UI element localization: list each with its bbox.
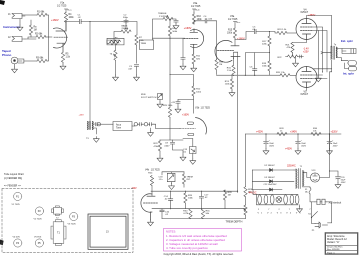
svg-text:(c) FENDER Mfg: (c) FENDER Mfg <box>4 177 23 180</box>
corner registration mark <box>0 0 5 5</box>
tube V1a envelope <box>54 22 68 52</box>
wire C1 to tone <box>81 21 122 23</box>
diode D2 <box>265 165 276 171</box>
svg-text:R15: R15 <box>228 30 233 32</box>
switch S1 <box>308 202 317 218</box>
ground opto <box>190 159 196 165</box>
svg-text:+320V: +320V <box>331 131 338 134</box>
return pair 2 <box>144 123 153 126</box>
pilot lamp <box>276 197 282 203</box>
wire plate to C4 <box>194 21 205 24</box>
coupling cap C1 .02 <box>78 15 82 24</box>
svg-text:+160V: +160V <box>182 114 189 117</box>
svg-text:R1 68k: R1 68k <box>37 12 45 14</box>
B+ center tap OT <box>321 52 331 54</box>
resistor R18 100k <box>262 61 271 75</box>
svg-text:V4b: V4b <box>145 169 150 171</box>
svg-text:500p: 500p <box>123 17 129 19</box>
resistor R23 470k <box>154 140 162 156</box>
layout tube V2 circle <box>34 207 44 220</box>
tube V5 envelope <box>296 67 317 88</box>
svg-text:+345V: +345V <box>290 131 297 134</box>
wire J2 to R2 <box>25 37 36 39</box>
wire xfmr to fuse <box>303 186 310 189</box>
svg-text:V1 V2 V3 V4 V5: V1 V2 V3 V4 V5 <box>258 212 303 214</box>
cap C9 .0047 <box>164 140 183 155</box>
osc cap C16 <box>160 209 170 219</box>
screen junction <box>313 75 328 79</box>
wire C4 to V3 grid <box>207 21 217 51</box>
svg-text:1/2 7025: 1/2 7025 <box>57 4 67 7</box>
resistor R25 100k <box>163 105 173 140</box>
B+ node c <box>233 22 241 25</box>
osc resistor R30 <box>183 209 192 219</box>
svg-text:+25V: +25V <box>79 114 85 116</box>
svg-text:+420V: +420V <box>256 131 263 134</box>
diode D3 <box>265 177 276 183</box>
grid resistor R20 1.5k on rail <box>276 72 296 77</box>
bias diode wire lower <box>252 170 294 181</box>
svg-text:450V: 450V <box>269 145 274 147</box>
treble pot label <box>158 13 169 18</box>
ground R23 <box>157 156 163 162</box>
reverb driver transformer T3 <box>86 121 94 140</box>
heater row wires <box>253 190 298 205</box>
input jack J2 <box>8 36 25 42</box>
svg-text:V2 7025: V2 7025 <box>34 218 43 220</box>
reverb tank box <box>113 122 132 131</box>
svg-text:Phono: Phono <box>2 53 11 57</box>
PI output rail <box>217 74 280 76</box>
wire interlock to cord <box>327 202 332 223</box>
label Taped Phono <box>2 49 11 57</box>
wire grid <box>46 36 53 38</box>
layout tube V4 circle <box>13 236 22 247</box>
svg-text:450V: 450V <box>333 145 338 147</box>
cathode resistor R11 820 <box>192 54 201 66</box>
wire C5 to V4 grid <box>256 32 277 34</box>
heater socket loops <box>258 195 299 204</box>
svg-text:.0047: .0047 <box>164 145 170 147</box>
osc bottom wire <box>162 218 246 220</box>
tube V3b label <box>195 107 210 110</box>
svg-text:C21 50uF/50V: C21 50uF/50V <box>264 184 278 186</box>
osc lower wire <box>152 208 246 210</box>
svg-text:Accu: Accu <box>116 123 122 126</box>
svg-text:1M: 1M <box>34 29 37 31</box>
ground NFB <box>315 76 321 82</box>
filter cap C19a <box>263 134 275 154</box>
wire phono to R3 <box>24 60 37 62</box>
svg-text:450V: 450V <box>301 145 306 147</box>
svg-text:R3 68k: R3 68k <box>36 58 44 60</box>
svg-text:100k: 100k <box>227 32 233 34</box>
mixer bus wire <box>170 38 194 107</box>
ground vol pot <box>113 75 119 81</box>
ground reverb send <box>93 137 99 143</box>
rail resistor R33 1k <box>277 128 287 136</box>
PI loop wire <box>245 53 269 76</box>
layout tube V3 circle <box>68 212 78 225</box>
svg-text:+25V: +25V <box>303 51 309 54</box>
V5 cathode stem <box>306 88 308 91</box>
volume box pot <box>107 38 124 45</box>
footswitch label <box>141 94 157 99</box>
opto coupler box <box>183 147 196 154</box>
wire send to tank <box>101 123 114 125</box>
cathode resistor R5 <box>61 52 70 62</box>
pot Tb vertical <box>110 45 118 75</box>
svg-text:V1 7025: V1 7025 <box>12 204 21 206</box>
layout tube V1 circle <box>12 192 22 206</box>
wire tank out <box>132 125 135 127</box>
B+ node b <box>192 9 200 12</box>
svg-text:250k A: 250k A <box>122 27 129 30</box>
svg-text:D2 1N4007: D2 1N4007 <box>265 165 276 167</box>
wire J1 to R1 <box>22 14 37 16</box>
wire bass left leg <box>114 32 121 44</box>
trem cluster wires <box>162 172 184 175</box>
cap C3 .047 <box>128 65 139 75</box>
wire R1 to grid bus <box>47 15 49 37</box>
long bus wire A <box>237 52 239 192</box>
speaker jack top <box>342 49 356 54</box>
svg-text:4.7M: 4.7M <box>183 213 188 215</box>
input jack J1 <box>8 13 25 19</box>
resistor R7 100k vertical <box>135 35 145 63</box>
osc resistor R28 1M <box>223 190 232 209</box>
tube V3b envelope <box>180 118 206 136</box>
power plug P1 <box>312 218 328 233</box>
svg-text:100k: 100k <box>197 19 203 21</box>
tube V4 label <box>301 9 309 15</box>
ground C9 <box>180 155 186 161</box>
rail resistor R34 10k <box>311 128 321 136</box>
tube V3a envelope <box>215 40 240 62</box>
tube V5 label <box>301 91 309 97</box>
svg-text:R2 68k: R2 68k <box>35 34 43 36</box>
cap C6 <box>250 53 257 76</box>
cap C20 <box>330 171 347 188</box>
cap V2 grid gnd <box>180 39 186 70</box>
svg-text:V3 7025: V3 7025 <box>68 223 77 225</box>
resistor R3 68k <box>36 58 47 63</box>
svg-text:100k: 100k <box>69 17 75 19</box>
cathode resistor R16 1.5k <box>227 59 235 76</box>
tail resistor R13 100k <box>225 75 234 90</box>
trem grid resistor R24 <box>150 176 153 197</box>
tube V1a label <box>57 2 67 8</box>
svg-text:1M: 1M <box>228 195 231 197</box>
long wire channel bus down <box>89 22 91 122</box>
tube V4b envelope <box>141 194 159 220</box>
cap C8 electrolytic <box>171 100 194 113</box>
osc cap C17 <box>199 191 209 209</box>
svg-text:2 7 2 7 2 7: 2 7 2 7 2 7 <box>258 209 315 211</box>
trem osc top wire <box>151 190 238 192</box>
rca jacks reverb send <box>92 123 100 135</box>
treble box <box>140 40 154 50</box>
svg-text:450V: 450V <box>341 182 346 184</box>
svg-text:1M: 1M <box>219 64 222 66</box>
diode D4 <box>270 188 273 191</box>
svg-text:+160V: +160V <box>51 18 59 22</box>
NFB wire <box>317 31 319 77</box>
tube V4b label <box>145 169 160 174</box>
svg-text:TREBLE: TREBLE <box>158 13 167 15</box>
svg-text:-44VDC: -44VDC <box>248 191 257 194</box>
chassis layout dashed box <box>2 188 133 252</box>
left margin mark <box>0 240 4 246</box>
wire R3 to bus <box>47 37 49 61</box>
output transformer T2 <box>331 44 337 60</box>
power transformer T1 <box>294 166 304 189</box>
wire xfmr to V6 <box>303 173 311 178</box>
svg-text:+430V: +430V <box>285 147 292 150</box>
ground V1 cathode <box>60 62 66 69</box>
resistor R17 220k <box>262 32 271 62</box>
svg-text:4. Tube sox covertly pot gearb: 4. Tube sox covertly pot gearbox <box>166 246 208 250</box>
svg-text:.01+: .01+ <box>159 179 164 181</box>
screen wires <box>313 27 328 72</box>
cap C2 500p <box>123 15 129 24</box>
resistor R29 56k right <box>244 134 253 197</box>
layout transformer T1 icon <box>51 220 66 246</box>
speaker jack bottom <box>345 61 357 71</box>
resistor R8 500k vertical <box>168 19 178 38</box>
cathode resistor R22 250 <box>278 53 298 59</box>
svg-text:D3 1N4007: D3 1N4007 <box>265 177 276 179</box>
svg-text:R20 1.5k: R20 1.5k <box>276 72 286 74</box>
V4 plate wire to OT <box>307 16 332 47</box>
filter cap C19b <box>295 134 307 154</box>
osc cap C14 <box>164 191 173 209</box>
tube V2a envelope <box>184 29 204 54</box>
cap C4 .045 <box>204 16 213 23</box>
wire fuse to interlock <box>310 194 315 202</box>
svg-text:325VAC: 325VAC <box>287 165 296 168</box>
svg-text:Copyright 2003, Wired & Raw (A: Copyright 2003, Wired & Raw (Austin, TX)… <box>164 252 234 256</box>
bias voltage labels <box>303 48 309 54</box>
B+ node a <box>64 9 72 12</box>
ground heater <box>297 205 303 213</box>
svg-text:Ext. spkr: Ext. spkr <box>341 39 354 43</box>
svg-text:RVB: RVB <box>141 94 146 96</box>
svg-text:Tone: Tone <box>116 128 122 130</box>
footswitch symbol <box>157 94 163 108</box>
svg-text:Page: 1: Page: 1 <box>327 252 335 254</box>
svg-text:INT.: INT. <box>187 179 191 181</box>
wire return up to grid <box>154 124 180 128</box>
ground PI tail <box>229 91 235 97</box>
grid leak resistor R14 1M <box>215 51 224 75</box>
svg-text:Tube Layout Chart: Tube Layout Chart <box>4 173 24 176</box>
ground trem tube <box>148 220 154 226</box>
AC interlock <box>315 199 342 204</box>
ground V2 cathode <box>191 66 197 72</box>
svg-text:1/2 7025: 1/2 7025 <box>191 5 201 8</box>
svg-text:TREM DEPTH: TREM DEPTH <box>226 220 243 224</box>
svg-text:R19 1.5k: R19 1.5k <box>278 29 288 31</box>
bypass cap C7 <box>298 55 304 58</box>
OT primary feed to rail <box>330 69 332 134</box>
grid resistor R19 1.5k <box>277 29 296 35</box>
tube V2a label <box>191 2 201 8</box>
speaker box <box>88 214 128 249</box>
ground C3 <box>134 75 140 81</box>
svg-text:V5 6V6: V5 6V6 <box>34 236 42 238</box>
svg-text:1/2 7025: 1/2 7025 <box>228 18 238 21</box>
filter cap C19c <box>327 134 339 154</box>
wire opto <box>183 139 193 159</box>
wire reverb mix <box>160 139 183 141</box>
cap C5 .02 <box>252 27 256 34</box>
bass pot 250k <box>121 24 131 33</box>
plate resistor R15 100k <box>227 25 237 46</box>
layout transformer T2 icon <box>52 206 64 219</box>
V3 cathode hook to bus <box>234 52 238 56</box>
phono RCA jack <box>11 57 24 64</box>
plate resistor R4 100k <box>64 12 74 22</box>
wire top to bass pot <box>122 22 137 36</box>
wire to V2 grid <box>153 37 185 39</box>
fuse F1 <box>305 188 311 194</box>
svg-text:Variant: "A": Variant: "A" <box>327 241 340 244</box>
svg-text:V3b: V3b <box>195 107 200 110</box>
svg-text:VOL 1M: VOL 1M <box>108 40 116 42</box>
V4 cathode resistor R21 470 <box>286 40 307 53</box>
wire V3 plate to C5 <box>235 32 254 40</box>
wire pot to cap <box>172 19 176 20</box>
title block <box>325 233 358 255</box>
trem opto box <box>167 173 175 189</box>
bias diode wire upper <box>252 169 294 171</box>
svg-text:FOOT SWITCH: FOOT SWITCH <box>141 97 157 99</box>
rectifier tube V6 5Y3 <box>310 170 319 182</box>
svg-text:R25 100k: R25 100k <box>163 105 173 107</box>
resistor R2 68k <box>35 34 46 39</box>
svg-text:6V6GT: 6V6GT <box>301 93 309 96</box>
osc resistor R31 56k <box>201 209 210 219</box>
resistor R6 100k (slope) <box>107 38 120 45</box>
svg-text:V4 6V6: V4 6V6 <box>13 236 21 238</box>
wire treble to pot <box>153 19 164 40</box>
tube V4 envelope <box>296 19 317 40</box>
resistor R1 68k <box>37 12 47 17</box>
osc resistor R26 <box>184 191 194 209</box>
ground phono <box>12 64 18 73</box>
svg-text:=> FENDER <=: => FENDER <= <box>4 185 21 188</box>
wire V6 to rail <box>320 134 330 178</box>
ground V4 cathode <box>293 57 299 67</box>
B+ distribution rail <box>246 133 342 135</box>
trem intensity cap label <box>159 177 164 182</box>
svg-text:TREB: TREB <box>141 43 147 45</box>
speaker wires <box>336 49 348 61</box>
layout chart title <box>4 173 24 187</box>
ground return <box>148 128 154 136</box>
resistor R12 100k vertical (reverb driver grid) <box>192 84 202 113</box>
cap to ground <box>173 20 179 29</box>
tube V3a label <box>228 15 238 21</box>
trem depth pot <box>243 197 247 219</box>
notes box <box>164 229 242 257</box>
ground (jack sleeve) <box>17 19 23 31</box>
svg-text:Rev: 8/26/99: Rev: 8/26/99 <box>327 249 340 251</box>
plate resistor R10 <box>192 12 202 24</box>
svg-text:R10: R10 <box>197 16 202 18</box>
bias diode wire D4 <box>252 181 282 189</box>
treble pot <box>163 16 173 21</box>
layout tube V5 circle <box>34 236 44 247</box>
resistor Ra 1M <box>29 20 37 37</box>
wire plate node <box>66 22 79 32</box>
svg-text:+160V: +160V <box>184 26 192 30</box>
trem intensity resistor <box>182 172 192 187</box>
svg-text:1/2 7025: 1/2 7025 <box>201 107 211 110</box>
svg-text:Int. spkr: Int. spkr <box>343 72 355 76</box>
V5 plate wire to OT <box>313 60 332 69</box>
svg-text:1/2 7025: 1/2 7025 <box>151 169 161 171</box>
rca jacks reverb return <box>134 123 143 126</box>
